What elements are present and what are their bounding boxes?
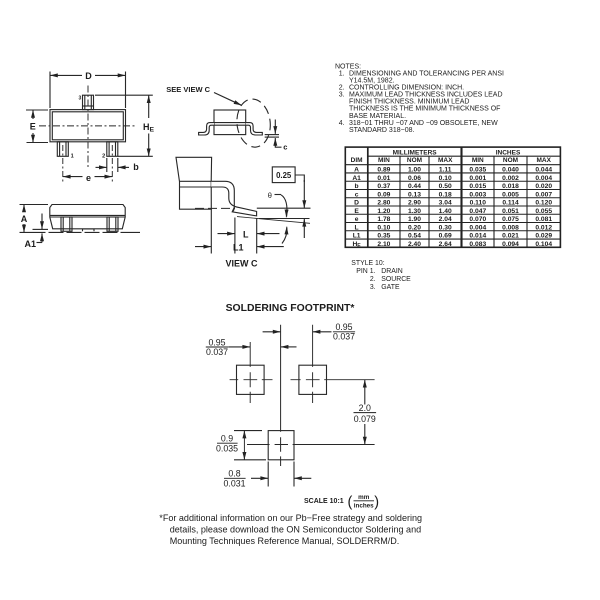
dimension L: extension line (foot tip) bbox=[256, 218, 258, 254]
svg-text:0.37: 0.37 bbox=[377, 183, 390, 190]
svg-text:c: c bbox=[283, 143, 287, 152]
svg-text:L1: L1 bbox=[353, 233, 361, 240]
svg-text:2.40: 2.40 bbox=[408, 241, 421, 248]
svg-text:Mounting Techniques Reference: Mounting Techniques Reference Manual, SO… bbox=[170, 536, 400, 546]
fraction bars for footprint labels bbox=[206, 346, 228, 348]
svg-text:0.10: 0.10 bbox=[439, 175, 452, 182]
svg-text:0.094: 0.094 bbox=[502, 241, 519, 248]
dimension HE: extension lines bbox=[95, 94, 153, 96]
svg-text:2.: 2. bbox=[339, 85, 345, 92]
svg-text:1: 1 bbox=[71, 154, 74, 160]
svg-text:mm: mm bbox=[358, 494, 370, 501]
svg-text:2.04: 2.04 bbox=[439, 216, 452, 223]
svg-text:3.: 3. bbox=[339, 92, 345, 99]
left pad vertical centerline bbox=[249, 342, 251, 403]
svg-text:DIMENSIONING AND TOLERANCING P: DIMENSIONING AND TOLERANCING PER ANSI bbox=[349, 70, 504, 77]
svg-text:0.007: 0.007 bbox=[535, 191, 552, 198]
svg-text:L: L bbox=[355, 224, 359, 231]
dimension A1: upper arrow bbox=[41, 214, 43, 230]
dimension c: upper arrow bbox=[274, 120, 276, 134]
see view c: parting lines bbox=[214, 122, 246, 124]
dimension b: extension lines bbox=[106, 158, 108, 172]
svg-text:0.044: 0.044 bbox=[535, 167, 552, 174]
svg-text:0.69: 0.69 bbox=[439, 233, 452, 240]
bottom pad horizontal centerline bbox=[247, 444, 375, 446]
svg-text:inches: inches bbox=[354, 503, 374, 510]
view c: seating centerline (dash) bbox=[195, 207, 235, 209]
svg-text:c: c bbox=[355, 191, 359, 198]
svg-text:2.80: 2.80 bbox=[377, 200, 390, 207]
svg-text:0.020: 0.020 bbox=[535, 183, 552, 190]
svg-text:1.30: 1.30 bbox=[408, 208, 421, 215]
svg-text:0.004: 0.004 bbox=[469, 224, 486, 231]
svg-text:1.40: 1.40 bbox=[439, 208, 452, 215]
see view c: body bbox=[214, 110, 246, 135]
dimension table: grid bbox=[345, 147, 560, 247]
svg-text:1.: 1. bbox=[339, 70, 345, 77]
svg-text:NOM: NOM bbox=[407, 157, 422, 164]
view c: gauge plane line bbox=[257, 207, 311, 209]
svg-text:0.25: 0.25 bbox=[276, 171, 292, 180]
see view c: right gull-wing lead bbox=[246, 123, 263, 135]
svg-text:0.081: 0.081 bbox=[535, 216, 552, 223]
svg-text:1.90: 1.90 bbox=[408, 216, 421, 223]
footprint dimension labels bbox=[206, 322, 376, 489]
svg-text:0.44: 0.44 bbox=[408, 183, 421, 190]
svg-text:HE: HE bbox=[352, 241, 361, 249]
dimension table: headers bbox=[351, 149, 552, 164]
see view c: left gull-wing lead bbox=[199, 123, 214, 135]
svg-text:0.003: 0.003 bbox=[469, 191, 486, 198]
dimension E: extension lines bbox=[26, 109, 48, 111]
svg-text:0.95: 0.95 bbox=[335, 322, 352, 332]
svg-text:SOLDERING FOOTPRINT*: SOLDERING FOOTPRINT* bbox=[226, 303, 356, 314]
svg-text:INCHES: INCHES bbox=[496, 149, 521, 156]
dimension D: dimension line with arrows bbox=[50, 74, 82, 76]
seating plane line bbox=[20, 231, 141, 233]
side view body bbox=[50, 205, 125, 229]
0.25 gauge box bbox=[272, 167, 295, 183]
svg-text:0.09: 0.09 bbox=[377, 191, 390, 198]
pin 3 tab (top view) bbox=[83, 95, 94, 109]
svg-text:0.95: 0.95 bbox=[208, 337, 225, 347]
svg-text:HE: HE bbox=[143, 122, 155, 134]
svg-text:0.029: 0.029 bbox=[535, 233, 552, 240]
dimension c: lower arrow + leader bbox=[275, 144, 281, 147]
scale parens bbox=[348, 494, 380, 510]
svg-text:GATE: GATE bbox=[381, 284, 400, 291]
svg-text:0.001: 0.001 bbox=[469, 175, 486, 182]
view c: seating plane line bbox=[259, 218, 310, 220]
svg-text:A1: A1 bbox=[352, 175, 361, 182]
pin 2 (top view) bbox=[107, 142, 118, 157]
svg-text:details, please download the O: details, please download the ON Semicond… bbox=[170, 525, 421, 535]
package body outline (top view, double line) bbox=[50, 110, 126, 142]
dimension L: arrows bbox=[218, 233, 235, 235]
svg-text:0.037: 0.037 bbox=[206, 347, 228, 357]
dimension e: dimension line with arrows bbox=[63, 176, 83, 178]
theta arc upper bbox=[281, 195, 287, 217]
dimension A1: lower arrow bbox=[41, 233, 43, 242]
dimension A: extension line bbox=[20, 204, 49, 206]
view c: lead (bend and foot) bbox=[211, 181, 256, 216]
svg-text:DIM: DIM bbox=[351, 157, 363, 164]
svg-text:0.079: 0.079 bbox=[354, 414, 376, 424]
svg-text:e: e bbox=[355, 216, 359, 223]
svg-text:2.64: 2.64 bbox=[439, 241, 452, 248]
0.8 dim: arrows bbox=[251, 477, 268, 479]
0.25: lower arrow bbox=[303, 219, 305, 238]
svg-text:MAX: MAX bbox=[438, 157, 453, 164]
svg-text:0.9: 0.9 bbox=[221, 434, 233, 444]
dimension L: extension line (lead left) bbox=[234, 218, 236, 254]
dimension A1: body bottom reference line bbox=[33, 228, 49, 230]
right pad horizontal centerline bbox=[291, 379, 375, 381]
svg-text:SOURCE: SOURCE bbox=[381, 276, 411, 283]
svg-text:Y14.5M, 1982.: Y14.5M, 1982. bbox=[349, 77, 395, 84]
svg-text:0.070: 0.070 bbox=[469, 216, 486, 223]
svg-text:318−01 THRU −07 AND −09 OBSOLE: 318−01 THRU −07 AND −09 OBSOLETE, NEW bbox=[349, 120, 498, 127]
svg-text:NOTES:: NOTES: bbox=[335, 63, 361, 70]
view c: body bbox=[176, 157, 212, 209]
right pad vertical centerline bbox=[312, 325, 314, 403]
svg-text:0.021: 0.021 bbox=[502, 233, 519, 240]
svg-text:A: A bbox=[21, 214, 28, 224]
svg-text:MILLIMETERS: MILLIMETERS bbox=[393, 149, 438, 156]
svg-text:0.037: 0.037 bbox=[333, 332, 355, 342]
2.0 dim: arrows bbox=[364, 380, 366, 405]
pin2 centerline bbox=[111, 145, 113, 182]
side view middle tab bbox=[83, 229, 95, 231]
top 0.95 dim: arrows bbox=[263, 331, 281, 333]
svg-text:θ: θ bbox=[268, 191, 272, 200]
scale units fraction bbox=[354, 494, 374, 510]
dimension c: reference lines bbox=[265, 134, 279, 136]
dimension HE: dimension line with arrows bbox=[148, 95, 150, 118]
svg-text:0.031: 0.031 bbox=[223, 479, 245, 489]
svg-text:2.10: 2.10 bbox=[377, 241, 390, 248]
svg-text:BASE MATERIAL.: BASE MATERIAL. bbox=[349, 113, 406, 120]
view c: foot detail bbox=[232, 207, 234, 212]
svg-text:VIEW C: VIEW C bbox=[225, 258, 258, 268]
svg-text:0.051: 0.051 bbox=[502, 208, 519, 215]
svg-text:0.54: 0.54 bbox=[408, 233, 421, 240]
0.25 gauge box: leader with arrow bbox=[295, 175, 304, 182]
svg-text:0.30: 0.30 bbox=[439, 224, 452, 231]
svg-text:3.: 3. bbox=[370, 284, 376, 291]
svg-text:0.035: 0.035 bbox=[469, 167, 486, 174]
svg-text:0.015: 0.015 bbox=[469, 183, 486, 190]
svg-text:2.0: 2.0 bbox=[359, 403, 371, 413]
svg-text:0.005: 0.005 bbox=[502, 191, 519, 198]
svg-text:0.8: 0.8 bbox=[228, 469, 240, 479]
svg-text:2: 2 bbox=[102, 154, 105, 160]
svg-text:b: b bbox=[133, 162, 139, 172]
svg-text:A: A bbox=[354, 167, 359, 174]
svg-text:1.00: 1.00 bbox=[408, 167, 421, 174]
dimension table: data bbox=[352, 167, 552, 249]
svg-text:0.055: 0.055 bbox=[535, 208, 552, 215]
svg-text:0.047: 0.047 bbox=[469, 208, 486, 215]
svg-text:0.110: 0.110 bbox=[470, 200, 487, 207]
side view parting line (double) bbox=[50, 214, 125, 216]
0.8 dim: extension lines bbox=[267, 462, 269, 487]
svg-text:3: 3 bbox=[79, 96, 82, 102]
pin 1 (top view) bbox=[57, 142, 68, 157]
svg-text:D: D bbox=[354, 200, 359, 207]
svg-text:SEE VIEW C: SEE VIEW C bbox=[166, 85, 210, 94]
svg-text:0.89: 0.89 bbox=[377, 167, 390, 174]
dimension L1: extension line (body edge) bbox=[210, 209, 212, 253]
svg-text:MAX: MAX bbox=[536, 157, 551, 164]
svg-text:0.104: 0.104 bbox=[535, 241, 552, 248]
dimension A: arrows bbox=[23, 205, 25, 213]
svg-text:PIN 1.: PIN 1. bbox=[356, 268, 375, 275]
view c: parting lines bbox=[180, 180, 212, 182]
right pad bbox=[299, 365, 327, 394]
svg-text:0.120: 0.120 bbox=[535, 200, 552, 207]
view c: slanted foot extension line bbox=[237, 217, 310, 224]
dimension E: dimension line with arrows bbox=[32, 110, 34, 119]
svg-text:3.04: 3.04 bbox=[439, 200, 452, 207]
pin1 centerline bbox=[62, 145, 64, 182]
left pad bbox=[237, 365, 265, 394]
svg-text:0.083: 0.083 bbox=[469, 241, 486, 248]
bottom pad bbox=[268, 431, 294, 460]
svg-text:MIN: MIN bbox=[472, 157, 484, 164]
svg-text:0.18: 0.18 bbox=[439, 191, 452, 198]
svg-text:L1: L1 bbox=[233, 242, 244, 252]
svg-text:*For additional information on: *For additional information on our Pb−Fr… bbox=[159, 513, 422, 523]
0.9 dim: arrows bbox=[243, 431, 245, 437]
svg-text:D: D bbox=[85, 71, 92, 81]
svg-text:0.075: 0.075 bbox=[502, 216, 519, 223]
svg-text:0.06: 0.06 bbox=[408, 175, 421, 182]
svg-text:): ) bbox=[374, 494, 379, 510]
svg-text:0.012: 0.012 bbox=[535, 224, 552, 231]
svg-text:0.13: 0.13 bbox=[408, 191, 421, 198]
0.9 dim: extension lines bbox=[234, 430, 262, 432]
svg-text:E: E bbox=[30, 121, 36, 131]
see view c: dashed detail ellipse bbox=[235, 97, 273, 148]
svg-text:4.: 4. bbox=[339, 120, 345, 127]
svg-text:0.014: 0.014 bbox=[469, 233, 486, 240]
horizontal centerline (top view) bbox=[39, 125, 137, 127]
svg-text:DRAIN: DRAIN bbox=[381, 268, 402, 275]
svg-text:0.20: 0.20 bbox=[408, 224, 421, 231]
svg-text:1.78: 1.78 bbox=[377, 216, 390, 223]
svg-text:e: e bbox=[86, 173, 91, 183]
svg-text:FINISH THICKNESS. MINIMUM LEAD: FINISH THICKNESS. MINIMUM LEAD bbox=[349, 99, 469, 106]
svg-text:0.35: 0.35 bbox=[377, 233, 390, 240]
theta arc lower bbox=[282, 228, 287, 244]
svg-text:STYLE 10:: STYLE 10: bbox=[351, 260, 384, 267]
svg-text:0.004: 0.004 bbox=[535, 175, 552, 182]
svg-text:0.018: 0.018 bbox=[502, 183, 519, 190]
svg-text:0.008: 0.008 bbox=[502, 224, 519, 231]
svg-text:0.10: 0.10 bbox=[377, 224, 390, 231]
side view right lead bbox=[107, 217, 118, 231]
svg-text:2.: 2. bbox=[370, 276, 376, 283]
side view left lead bbox=[61, 217, 72, 231]
theta leader bbox=[275, 194, 282, 196]
svg-text:L: L bbox=[243, 229, 249, 239]
svg-text:STANDARD 318−08.: STANDARD 318−08. bbox=[349, 127, 414, 134]
svg-text:(: ( bbox=[348, 494, 353, 510]
svg-text:0.002: 0.002 bbox=[502, 175, 519, 182]
dimension L1: arrows bbox=[195, 246, 211, 248]
see view c: leader arrow bbox=[214, 93, 242, 106]
footprint center axis line bbox=[280, 325, 282, 466]
svg-text:MIN: MIN bbox=[378, 157, 390, 164]
dimension D: extension lines bbox=[49, 72, 51, 109]
dimension b: arrows bbox=[96, 166, 107, 168]
dimension A1: leader bbox=[37, 242, 43, 244]
svg-text:0.50: 0.50 bbox=[439, 183, 452, 190]
svg-text:1.20: 1.20 bbox=[377, 208, 390, 215]
svg-text:1.11: 1.11 bbox=[439, 167, 452, 174]
svg-text:0.035: 0.035 bbox=[216, 444, 238, 454]
svg-text:MAXIMUM LEAD THICKNESS INCLUDE: MAXIMUM LEAD THICKNESS INCLUDES LEAD bbox=[349, 92, 503, 99]
svg-text:CONTROLLING DIMENSION: INCH.: CONTROLLING DIMENSION: INCH. bbox=[349, 85, 464, 92]
svg-text:SCALE 10:1: SCALE 10:1 bbox=[304, 498, 344, 505]
svg-text:2.90: 2.90 bbox=[408, 200, 421, 207]
svg-text:A1: A1 bbox=[24, 239, 36, 249]
left pad horizontal centerline bbox=[230, 379, 273, 381]
left 0.95 dim: arrows bbox=[228, 346, 250, 348]
svg-text:b: b bbox=[355, 183, 359, 190]
svg-text:0.114: 0.114 bbox=[502, 200, 519, 207]
svg-text:THICKNESS IS THE MINIMUM THICK: THICKNESS IS THE MINIMUM THICKNESS OF bbox=[349, 106, 500, 113]
vertical centerline (top view) bbox=[87, 86, 89, 169]
svg-text:0.01: 0.01 bbox=[377, 175, 390, 182]
svg-text:0.040: 0.040 bbox=[502, 167, 519, 174]
svg-text:E: E bbox=[354, 208, 359, 215]
svg-text:NOM: NOM bbox=[503, 157, 518, 164]
